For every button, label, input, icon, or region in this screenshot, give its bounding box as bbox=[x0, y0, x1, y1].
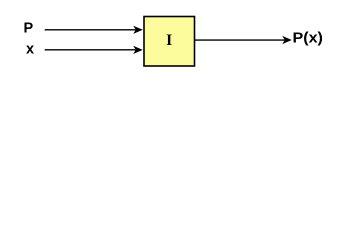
arrowhead on output wire bbox=[282, 36, 292, 44]
wire: x input line bbox=[45, 49, 136, 51]
arrowhead on x input wire bbox=[133, 46, 143, 54]
svg-text:P(x): P(x) bbox=[293, 31, 324, 47]
svg-text:x: x bbox=[26, 41, 34, 57]
svg-text:P: P bbox=[24, 21, 34, 37]
wire: P input line bbox=[45, 29, 136, 31]
svg-text:I: I bbox=[166, 32, 172, 49]
wire: output line bbox=[195, 39, 285, 41]
arrowhead on P input wire bbox=[133, 26, 143, 34]
block U1: interpreter box I bbox=[144, 17, 195, 67]
